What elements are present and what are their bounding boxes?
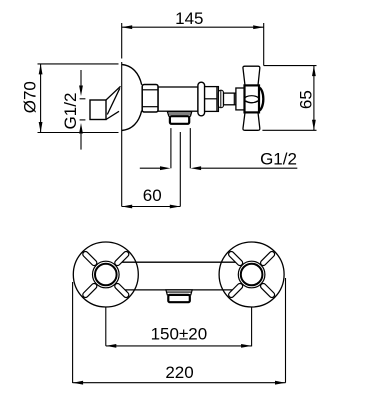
svg-text:150±20: 150±20 bbox=[151, 324, 208, 343]
svg-text:220: 220 bbox=[165, 363, 193, 382]
svg-text:145: 145 bbox=[175, 9, 203, 28]
svg-text:G1/2: G1/2 bbox=[260, 150, 297, 169]
svg-text:65: 65 bbox=[297, 90, 316, 109]
svg-text:Ø70: Ø70 bbox=[21, 81, 40, 113]
svg-text:G1/2: G1/2 bbox=[61, 93, 80, 130]
svg-text:60: 60 bbox=[143, 186, 162, 205]
